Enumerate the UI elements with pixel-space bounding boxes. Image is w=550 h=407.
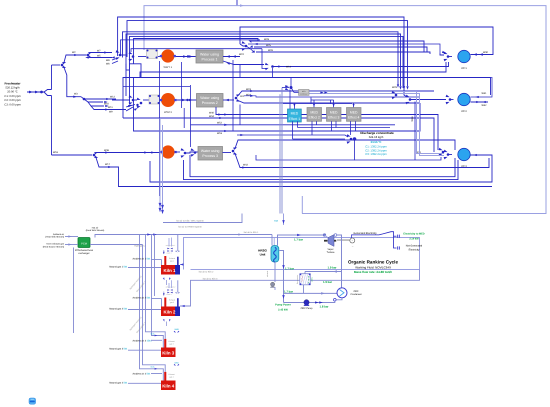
svg-text:1.7 bar: 1.7 bar xyxy=(294,238,304,242)
svg-text:Mass flow rate: 24.88 ton/h: Mass flow rate: 24.88 ton/h xyxy=(354,270,392,274)
wire row2 lower recycles xyxy=(216,107,438,150)
svg-text:W7: W7 xyxy=(97,49,101,52)
wire gas bus D xyxy=(152,235,164,348)
wire WC2 right loop xyxy=(240,77,492,97)
wire: recycle y36.4 xyxy=(130,36,404,104)
svg-text:C3: 1392.24 ppm: C3: 1392.24 ppm xyxy=(365,152,387,156)
wire kiln1 exhaust xyxy=(177,235,179,252)
wire: bus y222.5 xyxy=(163,214,242,223)
kiln 1 red bar xyxy=(164,256,166,265)
svg-text:W3: W3 xyxy=(74,93,78,96)
svg-text:W31: W31 xyxy=(482,92,488,95)
svg-text:Kiln 3: Kiln 3 xyxy=(162,350,175,355)
kiln 1 xyxy=(161,265,175,275)
svg-text:Effect 4: Effect 4 xyxy=(348,116,360,120)
node: top tick xyxy=(236,0,238,6)
svg-text:exchanger: exchanger xyxy=(78,252,89,255)
wire: big hot-air rectangle xyxy=(184,238,420,270)
svg-text:Water using: Water using xyxy=(201,149,220,153)
svg-text:Process 3: Process 3 xyxy=(202,154,218,158)
kiln 3 red bar xyxy=(164,339,166,348)
turbine xyxy=(323,233,326,236)
wire long y179.6 xyxy=(184,160,459,180)
wire long y176.7 xyxy=(190,155,455,177)
wire row1 to box xyxy=(183,55,187,58)
svg-text:W2: W2 xyxy=(72,51,76,54)
svg-text:hot air to Kiln 1: hot air to Kiln 1 xyxy=(244,231,259,234)
box MED condenser xyxy=(299,90,310,96)
wire kiln1 right arrows xyxy=(180,264,184,266)
compressor WC1 xyxy=(458,50,470,62)
box Water using Process 2 xyxy=(197,94,224,108)
wire WC1 right xyxy=(471,54,494,56)
svg-text:W12: W12 xyxy=(110,96,116,99)
svg-text:~: ~ xyxy=(351,239,353,243)
svg-text:MED: MED xyxy=(350,110,358,114)
wire kiln2 stack risers xyxy=(168,283,170,288)
svg-text:W17: W17 xyxy=(105,163,111,166)
svg-text:exhaust fan 1: exhaust fan 1 xyxy=(166,244,176,247)
mixer discharge xyxy=(347,134,351,138)
wire: recycle y31.8 xyxy=(123,32,399,84)
wire W22 riser xyxy=(232,60,234,131)
svg-text:Effect 1: Effect 1 xyxy=(289,117,301,121)
svg-text:Vapor: Vapor xyxy=(328,248,334,251)
mixers between kilns xyxy=(163,278,165,281)
wire: recycle y34 xyxy=(126,34,401,96)
wire feeds kiln1 xyxy=(151,259,162,261)
wire: hot air kiln2 line xyxy=(191,270,420,304)
svg-text:564: 564 xyxy=(147,297,152,300)
kiln 2 blue bar xyxy=(177,298,179,306)
svg-text:(IHE): (IHE) xyxy=(311,277,314,281)
wire PCM inputs xyxy=(65,236,78,238)
mixer WC2 left xyxy=(446,95,450,99)
wire: y48.7 xyxy=(131,49,262,52)
wire ORC top line xyxy=(278,235,325,246)
wire row1 bottom recycle xyxy=(223,61,264,65)
svg-text:W9: W9 xyxy=(109,110,113,113)
mixer MED condensate xyxy=(285,85,289,87)
svg-text:Kiln 4: Kiln 4 xyxy=(162,383,175,388)
svg-text:hot air to Kiln 2: hot air to Kiln 2 xyxy=(199,270,214,273)
wire condenser to pump xyxy=(336,298,342,300)
wire W38 vertical xyxy=(414,102,416,161)
svg-text:W34: W34 xyxy=(209,115,215,118)
wire row1 main xyxy=(138,56,147,58)
splitter row2 right xyxy=(235,97,238,100)
wire: W26 line y52 xyxy=(256,52,430,54)
svg-text:W52: W52 xyxy=(217,122,223,125)
kiln 1 blue bar xyxy=(177,257,179,265)
svg-text:W11: W11 xyxy=(108,106,113,109)
wire HRSG liquid leg xyxy=(279,251,283,303)
wire W21 riser xyxy=(239,105,241,125)
svg-text:C3: 0.00 ppm: C3: 0.00 ppm xyxy=(4,103,21,106)
wire row2 box right xyxy=(223,99,234,101)
svg-text:520.12 kg/h: 520.12 kg/h xyxy=(5,87,20,90)
splitter W7/W5 xyxy=(87,54,90,57)
wire gas bus A xyxy=(140,235,164,381)
svg-text:MED: MED xyxy=(330,110,338,114)
svg-text:Turbine: Turbine xyxy=(327,251,335,254)
box MED Effect 4 xyxy=(347,108,362,122)
svg-text:Ambient air 4: Ambient air 4 xyxy=(132,373,146,376)
wire recuperator hot in xyxy=(305,271,342,273)
svg-text:564: 564 xyxy=(124,348,129,351)
wire W14 to y77 xyxy=(272,68,274,77)
wire kiln1 stack risers xyxy=(168,238,170,247)
wire: W28 line y41 xyxy=(252,41,424,52)
wire: light top bus xyxy=(144,6,546,214)
svg-text:Recuperator: Recuperator xyxy=(296,274,299,284)
wire kiln2 exhaust xyxy=(177,280,179,292)
svg-text:hot air to Kiln 3: hot air to Kiln 3 xyxy=(203,278,218,281)
wire y124.8 long xyxy=(191,124,317,126)
svg-text:PCM: PCM xyxy=(81,242,87,245)
compressor WC3 xyxy=(458,148,470,160)
wire y77.5 long xyxy=(123,78,491,119)
tank row1 xyxy=(130,64,142,78)
valves above MED xyxy=(293,104,295,107)
svg-text:WC2: WC2 xyxy=(461,110,467,113)
svg-text:1.7 bar: 1.7 bar xyxy=(285,266,295,270)
generator G xyxy=(350,238,355,243)
ORC condenser xyxy=(337,288,347,298)
wire MED top connectors xyxy=(392,91,396,95)
svg-text:W32: W32 xyxy=(482,104,488,107)
svg-text:gas 3: gas 3 xyxy=(169,342,173,345)
HRSG unit xyxy=(271,246,279,263)
recuperator xyxy=(300,274,311,285)
svg-text:W5: W5 xyxy=(97,54,101,57)
svg-text:Gas: Gas xyxy=(151,332,155,335)
svg-text:gas 2: gas 2 xyxy=(170,301,174,304)
svg-text:W14: W14 xyxy=(286,66,292,69)
svg-text:Gas: Gas xyxy=(151,366,155,369)
wire row3 to mixer xyxy=(175,151,180,153)
wire gas bus B xyxy=(143,245,166,372)
svg-text:W36: W36 xyxy=(104,149,110,152)
svg-text:564: 564 xyxy=(124,266,129,269)
svg-text:33.56 °C: 33.56 °C xyxy=(371,140,382,144)
svg-text:C2: 0.00 ppm: C2: 0.00 ppm xyxy=(4,99,21,102)
wire row3 box right xyxy=(223,152,232,154)
kiln 2 red bar xyxy=(164,298,166,307)
svg-text:W16: W16 xyxy=(53,151,59,154)
wire: recycle bus y20.6 xyxy=(127,21,408,86)
wire row2 to box xyxy=(177,99,197,101)
svg-text:Process 2: Process 2 xyxy=(202,101,218,105)
svg-text:C1: 0.00 ppm: C1: 0.00 ppm xyxy=(4,95,21,98)
heat exchanger row1 xyxy=(147,50,158,59)
svg-text:WC3: WC3 xyxy=(461,165,467,168)
svg-text:(Heat Source Stream): (Heat Source Stream) xyxy=(43,245,65,248)
kiln 2 xyxy=(161,307,175,317)
wire electric bracket xyxy=(352,235,380,238)
svg-text:W48: W48 xyxy=(274,220,279,223)
svg-text:hot air to HRSG System: hot air to HRSG System xyxy=(178,226,202,229)
wire feeds kiln3 xyxy=(151,339,162,341)
wire: double y38.5/39.9 xyxy=(121,40,261,55)
svg-text:Kiln 1: Kiln 1 xyxy=(164,268,177,273)
svg-text:Pump Power: Pump Power xyxy=(275,304,291,307)
wire WC1 feed xyxy=(440,54,444,56)
svg-text:1.8 bar: 1.8 bar xyxy=(319,305,329,309)
source: freshwater inlet xyxy=(27,91,44,93)
splitter W36/W17 xyxy=(93,154,96,157)
wire: light drop to bottom xyxy=(159,118,161,212)
svg-text:W38: W38 xyxy=(411,116,414,122)
svg-text:Ambient air 2: Ambient air 2 xyxy=(132,297,146,300)
svg-text:W49: W49 xyxy=(174,328,179,331)
svg-text:hot air to Kiln / ORC System: hot air to Kiln / ORC System xyxy=(176,219,204,222)
heat exchanger row2 xyxy=(149,95,160,104)
svg-text:W10: W10 xyxy=(104,103,110,106)
svg-text:ORC: ORC xyxy=(353,290,358,293)
mixer WC3 left xyxy=(444,150,448,154)
svg-text:Natural gas 4: Natural gas 4 xyxy=(109,382,123,385)
wire recuperator out xyxy=(303,285,305,294)
svg-text:gas 1: gas 1 xyxy=(170,260,174,263)
wire row3 into pump xyxy=(140,152,161,154)
mixer under row1 right W14 xyxy=(265,63,269,66)
wire hot gas to HRSG xyxy=(271,235,273,246)
pump WWT1 xyxy=(161,49,174,62)
compressor WC2 xyxy=(458,93,470,105)
wire kiln2 right arrows xyxy=(180,303,191,306)
svg-text:W8: W8 xyxy=(106,59,110,62)
ORC pump xyxy=(304,300,309,305)
wire: verticals mid xyxy=(159,61,161,196)
svg-text:Natural gas 2: Natural gas 2 xyxy=(109,308,123,311)
mixer right of row1 xyxy=(242,41,246,45)
svg-text:2.19 kW: 2.19 kW xyxy=(409,237,419,240)
svg-text:W25: W25 xyxy=(266,44,272,47)
svg-text:W18: W18 xyxy=(217,132,223,135)
kiln 3 xyxy=(161,348,176,358)
box Water using Process 3 xyxy=(198,147,223,161)
svg-text:ORC Pump: ORC Pump xyxy=(301,307,313,310)
svg-text:Condenser: Condenser xyxy=(350,293,361,296)
svg-text:564: 564 xyxy=(124,308,129,311)
svg-text:2.45 kW: 2.45 kW xyxy=(278,308,288,311)
svg-text:Water using: Water using xyxy=(200,53,219,57)
svg-text:1.9 bar: 1.9 bar xyxy=(327,266,337,270)
wire: drop x283.5 xyxy=(283,214,285,226)
wire MED feed light pair xyxy=(309,92,444,154)
wire gas bus C xyxy=(146,235,166,339)
svg-text:exhaust fan 2: exhaust fan 2 xyxy=(166,285,176,288)
svg-text:W40: W40 xyxy=(209,111,215,114)
wire feeds kiln4 xyxy=(151,373,162,375)
svg-text:1.7 bar: 1.7 bar xyxy=(284,289,294,293)
svg-text:Electricity to MED: Electricity to MED xyxy=(403,233,424,236)
kiln 4 red bar xyxy=(164,372,166,381)
svg-text:stack 2: stack 2 xyxy=(166,293,171,296)
wire: drop x302 xyxy=(301,196,303,214)
wire y131 xyxy=(134,103,421,131)
svg-text:W6: W6 xyxy=(106,63,110,66)
svg-text:WC1: WC1 xyxy=(461,67,467,70)
svg-text:(Heat Sink Stream): (Heat Sink Stream) xyxy=(45,236,64,239)
wire: main left vertical xyxy=(51,65,53,90)
wire discharge to WC3 line xyxy=(256,141,355,161)
wire gas bus E xyxy=(154,235,156,297)
svg-text:W22: W22 xyxy=(239,53,245,56)
wire y72 long loop xyxy=(140,62,446,78)
svg-text:Natural gas 1: Natural gas 1 xyxy=(109,266,123,269)
splitter upper feed xyxy=(52,64,61,66)
svg-text:Effect 3: Effect 3 xyxy=(328,116,340,120)
box MED Effect 3 xyxy=(327,108,342,122)
mixer row1 xyxy=(116,50,120,54)
wire row2 feed xyxy=(112,99,130,101)
svg-text:W26: W26 xyxy=(268,49,274,52)
mixer WC1 left xyxy=(444,52,448,56)
wire feeds kiln2 xyxy=(151,298,162,300)
svg-text:Electricity: Electricity xyxy=(409,249,420,252)
wire long y182 xyxy=(150,155,492,182)
wire down from MED left (discharge pair) xyxy=(281,88,283,214)
svg-text:564: 564 xyxy=(124,382,129,385)
svg-text:MED: MED xyxy=(291,112,299,116)
generator shaft xyxy=(337,239,349,241)
svg-text:524.13 kg/h: 524.13 kg/h xyxy=(369,135,384,139)
svg-text:564: 564 xyxy=(147,258,152,261)
svg-text:MED: MED xyxy=(310,110,318,114)
svg-text:gas 4: gas 4 xyxy=(169,375,173,378)
svg-text:Generated Electricity: Generated Electricity xyxy=(353,232,377,235)
legend icon xyxy=(29,398,36,404)
svg-text:Ambient air: Ambient air xyxy=(53,233,64,236)
wire WC2 feed junction xyxy=(404,84,407,97)
svg-text:Process 1: Process 1 xyxy=(202,58,218,62)
svg-text:Natural gas 3: Natural gas 3 xyxy=(109,348,123,351)
svg-text:564: 564 xyxy=(147,373,152,376)
svg-text:Hydrogen 2: Hydrogen 2 xyxy=(134,244,146,247)
svg-text:Hot air: Hot air xyxy=(92,226,99,229)
svg-text:W30: W30 xyxy=(483,51,489,54)
svg-text:Effect 2: Effect 2 xyxy=(308,116,320,120)
svg-text:W42: W42 xyxy=(243,163,249,166)
wire: y38.5 spur xyxy=(134,39,259,111)
svg-text:Working Fluid: NOVEC649: Working Fluid: NOVEC649 xyxy=(355,265,391,269)
splitter W3 row xyxy=(73,96,77,98)
svg-text:stack 1: stack 1 xyxy=(166,251,171,254)
connector to MED xyxy=(396,235,399,238)
wire: recycle bus y17 xyxy=(118,17,404,84)
kiln 4 xyxy=(161,381,176,391)
svg-text:1.9 bar: 1.9 bar xyxy=(323,280,333,284)
wire turbine outlet xyxy=(334,234,337,237)
box MED Effect 1 xyxy=(288,109,302,122)
svg-text:W50: W50 xyxy=(174,361,179,364)
svg-text:exhaust: exhaust xyxy=(266,270,269,277)
svg-text:W29: W29 xyxy=(392,86,398,89)
svg-text:W21: W21 xyxy=(240,95,245,98)
wire row1 box right side xyxy=(223,56,240,58)
pump WWT3 xyxy=(161,145,174,158)
svg-text:∼: ∼ xyxy=(351,246,353,249)
svg-text:Oven exhaust gas: Oven exhaust gas xyxy=(46,243,65,246)
wire left drop xyxy=(73,248,75,334)
svg-text:Water using: Water using xyxy=(200,96,219,100)
wire PCM outputs xyxy=(95,235,272,238)
box PCM heat exchanger xyxy=(78,238,90,248)
svg-text:Ambient air 3: Ambient air 3 xyxy=(132,340,146,343)
wire: WC1 loop top y27 xyxy=(240,27,493,55)
svg-text:Kiln 2: Kiln 2 xyxy=(164,309,177,314)
svg-text:Ambient air 1: Ambient air 1 xyxy=(132,258,146,261)
svg-text:Unit: Unit xyxy=(260,252,266,256)
box Water using Process 1 xyxy=(196,50,223,63)
wire HRSG exhaust down xyxy=(274,262,276,282)
svg-text:Freshwater: Freshwater xyxy=(4,81,21,85)
wire: W25b y44 xyxy=(248,44,440,54)
box MED Effect 2 xyxy=(307,108,322,122)
svg-text:20.00 °C: 20.00 °C xyxy=(7,91,18,94)
wire: W25 line y47 xyxy=(254,47,427,53)
wire row3 feed xyxy=(52,154,93,156)
svg-text:W28: W28 xyxy=(264,38,270,41)
mixer row2 xyxy=(129,95,133,99)
svg-text:WWT2: WWT2 xyxy=(164,111,172,114)
wire MED bottoms xyxy=(292,121,294,139)
svg-text:(Heat Sink Stream): (Heat Sink Stream) xyxy=(86,229,105,232)
svg-text:Net Generated: Net Generated xyxy=(406,245,423,248)
svg-text:Organic Rankine Cycle: Organic Rankine Cycle xyxy=(348,259,398,264)
pump WWT2 xyxy=(161,93,175,107)
svg-text:WWT 1: WWT 1 xyxy=(163,66,172,69)
